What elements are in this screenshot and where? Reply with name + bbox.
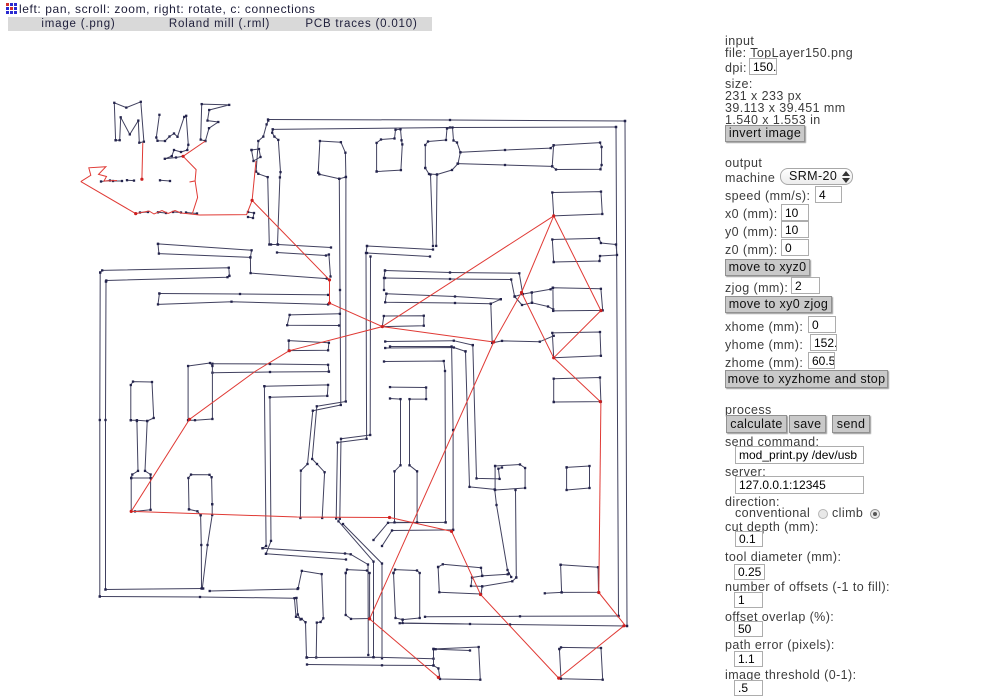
red vertical (599, 402, 601, 593)
bundle diag a (339, 521, 374, 657)
red fan2 (131, 351, 289, 512)
pad small mid b (567, 466, 590, 490)
red J1 up (382, 216, 553, 327)
outline inner right (616, 127, 619, 616)
trace t0 trap (158, 244, 252, 258)
tall left a (473, 345, 502, 479)
bar rc (385, 341, 473, 345)
box inner right (384, 361, 446, 522)
trace tA bot (106, 276, 229, 282)
letter y (156, 115, 188, 159)
outline bottom left inner (106, 589, 204, 590)
feet row2 b (158, 211, 166, 214)
conn bl a (263, 548, 369, 655)
bottom bus b (307, 665, 434, 666)
bar l1 (287, 314, 340, 326)
trace t2 left b (340, 257, 371, 519)
red fan (289, 327, 382, 351)
pad r2 tile3 (552, 192, 602, 216)
red J1 down (382, 327, 493, 342)
pad e stem b (435, 175, 438, 246)
conn bl b (266, 554, 346, 560)
feet row1 d (160, 179, 170, 182)
pad F bottom (559, 647, 602, 679)
small glyph (252, 149, 261, 161)
letter M (114, 102, 144, 143)
trace t3 left (384, 271, 385, 291)
pad L1 left (297, 598, 301, 620)
red E to D2 (554, 311, 601, 358)
red down right (452, 531, 559, 678)
pad R1 t8 (394, 570, 420, 620)
pad tl stem2 (272, 129, 280, 244)
pad j mid2 bottom (189, 509, 201, 515)
outline inner top (273, 127, 616, 129)
top help text (19, 2, 316, 16)
pad A hook1 (482, 574, 509, 576)
pad small stem b (515, 490, 518, 578)
dumbbell2 bar (492, 336, 554, 343)
pad e stem a (431, 175, 434, 247)
bottom bus a (307, 657, 434, 659)
pad tl neck (256, 121, 269, 245)
pad mid right (554, 378, 601, 403)
pad j mid (188, 363, 212, 420)
feet row1 b (113, 180, 122, 182)
feet row1 c (127, 179, 134, 181)
box left b (266, 397, 271, 554)
gray menu bar (8, 17, 432, 31)
red vert corner (599, 593, 626, 627)
red y tail c (192, 181, 197, 214)
outline bottom right outer (400, 623, 627, 626)
dumbbell3 stub (515, 293, 532, 306)
feet hook (248, 212, 254, 218)
pad l2 (289, 341, 329, 351)
trace t3 top (385, 271, 523, 295)
outline inner left (105, 282, 108, 590)
dumbbell l pad2 (131, 478, 150, 511)
trace t2 left (336, 246, 367, 519)
bundle diag b (343, 524, 382, 658)
red M drop (141, 143, 144, 180)
red D2 up (522, 293, 554, 358)
dumbbell2 pad (552, 332, 601, 358)
pad j mid2 (188, 475, 212, 510)
pad small mid a (495, 465, 525, 491)
box bottom inner (374, 522, 446, 540)
pad A hook2 (482, 578, 516, 587)
dumbbell bar1 top (458, 143, 602, 170)
bar ra2 (385, 294, 491, 304)
trace t1 top (271, 245, 331, 248)
red long horiz (131, 511, 451, 531)
trace t1 bot (277, 253, 331, 277)
red y tail a (183, 141, 205, 156)
red junction dots (130, 155, 626, 680)
bar l4 top (264, 385, 328, 397)
dumbbell3 pad (553, 288, 603, 311)
top help bar icon (6, 3, 17, 14)
bar ra (386, 294, 500, 300)
trace tB top (159, 294, 328, 295)
dumbbell l stem b (145, 421, 151, 478)
feet row1 a (101, 181, 110, 182)
red horiz letters (200, 200, 253, 215)
red t3 pad2 (494, 293, 522, 343)
dumbbell l pad1 (131, 382, 154, 421)
feet row2 d (186, 213, 197, 214)
bar l3 top (212, 364, 329, 372)
outline outer top (268, 120, 625, 122)
bar l3 bot (212, 372, 329, 373)
box top right (390, 347, 453, 530)
tall left b (466, 351, 512, 577)
pad r3 tile3 (552, 238, 617, 262)
trace t2 bot (367, 253, 430, 257)
dumbbell pad edge (552, 145, 553, 166)
red bottom V (559, 626, 624, 678)
bar ra drop (491, 299, 501, 343)
dumbbell3 bar bot (532, 303, 553, 310)
pad B tail (545, 591, 562, 594)
red J0 to J1 (330, 303, 383, 327)
pad A (438, 564, 482, 594)
pad c (318, 141, 346, 179)
trace t0 tail (250, 257, 326, 278)
pad j mid2 stem b (202, 504, 212, 588)
trace t2 top (367, 246, 433, 250)
pad B (561, 565, 599, 593)
idumb top (390, 387, 426, 522)
feet row2 c (173, 211, 181, 214)
red steep (370, 342, 494, 619)
pad j mid2 stem a (200, 515, 203, 588)
outline bottom left inner2 (210, 588, 298, 591)
box bottom (382, 530, 453, 546)
red to E jct (554, 216, 601, 311)
bus to E (434, 649, 471, 651)
pad R1 line (403, 620, 470, 624)
pad d (377, 129, 403, 171)
letter F (201, 104, 230, 141)
feet row2 a (140, 211, 148, 214)
red D2 to padmid (554, 358, 601, 402)
dumbbell3 bar top (532, 288, 553, 293)
outline outer left (99, 273, 101, 597)
red feet mid (168, 211, 200, 216)
dumbbell l stem a (131, 421, 138, 478)
trace tA top (100, 268, 229, 276)
pad e (425, 128, 460, 175)
pad j1 (382, 316, 424, 327)
red glyph drop (252, 161, 256, 200)
pad c stem a (300, 179, 340, 518)
trace tB bot (158, 294, 328, 305)
outline outer right (625, 121, 627, 626)
pad L1 (298, 571, 323, 658)
trace t3 bot (385, 278, 515, 297)
bar rc2 (385, 348, 465, 352)
pad M1 (346, 570, 370, 619)
red steep2 (370, 619, 439, 678)
box left a (263, 386, 267, 548)
outline bottom left outer (100, 597, 307, 658)
red diag left (81, 182, 168, 214)
red tangle left (81, 167, 117, 182)
red y tail b (183, 156, 196, 182)
outline bottom right inner (425, 615, 619, 618)
pad E bottom (434, 647, 481, 680)
red t3 pad (522, 216, 554, 293)
pad c stem b (312, 177, 346, 518)
red long diag to J0 (252, 200, 329, 303)
